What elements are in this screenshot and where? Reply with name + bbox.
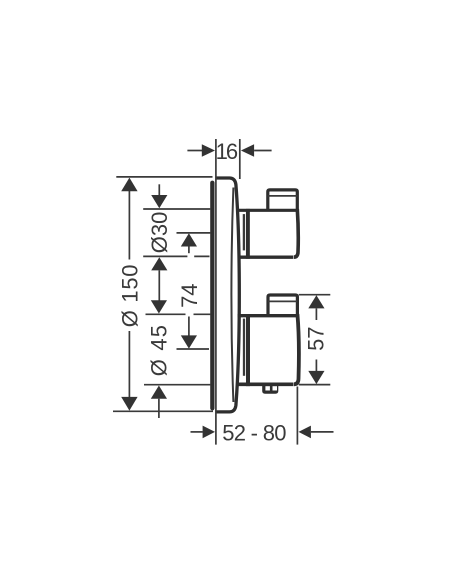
dim D150 top arrow xyxy=(121,178,137,192)
top knob top edge xyxy=(238,209,299,212)
dim 16 left leader xyxy=(187,150,202,152)
dim D30 top extension xyxy=(143,208,210,210)
dim D150 line upper xyxy=(128,191,130,260)
svg-text:Ø 45: Ø 45 xyxy=(146,324,171,377)
dim D45 top extension xyxy=(146,313,212,315)
dim 16 extension line right xyxy=(239,139,241,179)
dim 74 top extension xyxy=(177,232,211,234)
bottom knob sleeve line xyxy=(243,319,245,376)
safety stop tab xyxy=(262,383,278,394)
dim 74 lower leader xyxy=(188,317,190,336)
dim D30 top arrow xyxy=(151,195,167,208)
top knob cap xyxy=(268,190,298,210)
dim D45 lower leader xyxy=(158,399,160,418)
dim D30 / D45 shared leader xyxy=(158,270,160,301)
dim D30 bottom arrow xyxy=(151,257,167,270)
dim 57 top extension xyxy=(299,294,331,296)
svg-text:52 - 80: 52 - 80 xyxy=(222,420,286,445)
dim D30 bottom extension xyxy=(143,255,209,257)
bottom knob back edge xyxy=(246,314,250,386)
top knob back edge xyxy=(246,209,250,259)
dim 16 left arrow xyxy=(202,144,215,157)
bottom knob cap inner line xyxy=(268,300,297,302)
top knob body right edge xyxy=(294,209,299,257)
dim 57 upper leader xyxy=(315,308,317,320)
dim 16 right leader xyxy=(254,150,272,152)
dim D150 bottom arrow xyxy=(121,397,137,411)
bottom knob cap xyxy=(268,295,297,316)
dim D150 line lower xyxy=(128,331,130,398)
bottom knob top edge xyxy=(238,314,299,317)
dim 57 bottom arrow xyxy=(308,371,324,384)
dim 74 bottom arrow xyxy=(181,335,197,348)
dim D45 top arrow xyxy=(151,300,167,313)
svg-text:57: 57 xyxy=(303,326,328,350)
top knob sleeve line xyxy=(243,214,245,250)
dim 57 lower leader xyxy=(315,360,317,372)
dim D30 upper leader xyxy=(158,184,160,196)
top knob bottom edge xyxy=(238,256,293,259)
dim D150 bottom extension xyxy=(113,410,213,412)
dim 52-80 right arrow xyxy=(299,426,311,439)
plate front face contour line xyxy=(231,188,233,403)
svg-text:16: 16 xyxy=(216,139,238,164)
svg-text:Ø30: Ø30 xyxy=(147,212,172,254)
dim 16 extension line left xyxy=(215,139,217,445)
dim 52-80 right leader xyxy=(311,431,334,433)
dim 52-80 left leader xyxy=(191,431,203,433)
dim 57 top arrow xyxy=(308,295,324,308)
dim 74 bottom extension xyxy=(177,348,210,350)
svg-text:Ø 150: Ø 150 xyxy=(117,264,142,327)
bottom knob body right edge xyxy=(294,314,299,384)
dim D45 bottom extension xyxy=(144,384,211,386)
top knob cap inner line xyxy=(268,195,298,197)
dim 16 right arrow xyxy=(241,144,254,157)
dim 74 upper leader xyxy=(188,247,190,254)
dim D45 bottom arrow xyxy=(151,386,167,399)
bottom knob bottom edge xyxy=(238,382,294,386)
escutcheon plate body xyxy=(215,178,239,412)
dim 52-80 left arrow xyxy=(203,426,215,439)
wall flange (plate back bar) xyxy=(210,181,214,411)
dim D150 top extension xyxy=(116,176,212,178)
dim 52-80 right extension xyxy=(296,387,298,445)
dim 74 top arrow xyxy=(181,233,197,246)
dim 57 bottom extension xyxy=(299,384,331,386)
svg-text:74: 74 xyxy=(177,283,202,307)
